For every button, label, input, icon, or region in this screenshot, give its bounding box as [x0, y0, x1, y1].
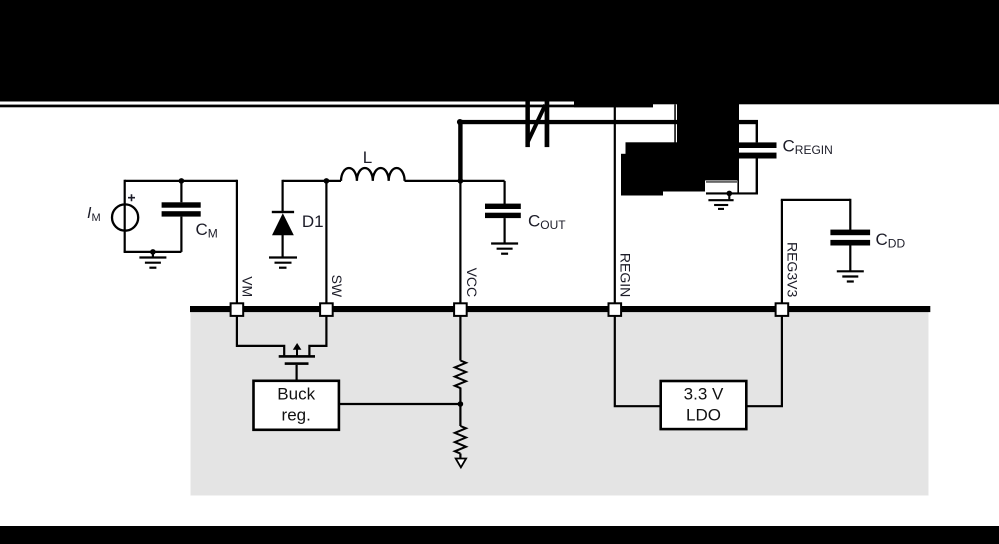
capacitor C_M bottom stub — [180, 217, 182, 252]
pin square SW — [320, 303, 333, 316]
svg-text:CREGIN: CREGIN — [783, 137, 833, 158]
top-right black bar extension — [653, 0, 999, 104]
resistor R1 — [455, 361, 466, 389]
wire: R1 to node — [459, 388, 461, 404]
junction dot C_REGIN ground — [727, 191, 733, 197]
current source I_M circle — [112, 204, 138, 230]
wire: L to VCC node — [405, 180, 461, 182]
svg-text:REGIN: REGIN — [618, 253, 634, 297]
diode (partially hidden) right bar — [545, 102, 550, 148]
black redaction block C (right part) — [661, 154, 705, 192]
wire: VCC pin down to R1 — [459, 315, 461, 360]
junction dot SW node — [324, 178, 330, 184]
svg-text:LDO: LDO — [686, 406, 721, 425]
wire: VCC node to C_OUT branch — [460, 180, 504, 182]
svg-text:CM: CM — [196, 220, 218, 241]
junction dot divider — [458, 401, 464, 407]
diode D1 cathode bar — [272, 211, 294, 213]
bottom black bar — [0, 526, 999, 544]
capacitor C_OUT plates — [485, 204, 521, 209]
junction dot ground node — [150, 249, 156, 255]
black redaction block B — [626, 142, 739, 180]
svg-text:L: L — [363, 148, 372, 167]
thin vertical line left of block A — [674, 104, 676, 142]
wire: C_REGIN vertical lower — [756, 159, 758, 194]
wire: buck to divider — [339, 403, 461, 405]
capacitor C_M plates — [162, 202, 201, 207]
junction dot at thick bus corner — [457, 119, 463, 125]
top black bar — [0, 0, 999, 102]
diode (partially hidden) diagonal — [527, 105, 545, 143]
junction dot VCC node — [458, 178, 464, 184]
MOSFET channel bar — [279, 355, 315, 358]
inductor L — [341, 168, 405, 181]
pin square VCC — [454, 303, 467, 316]
IC body (gray region) — [191, 311, 929, 496]
black redaction block C (left part) — [621, 154, 663, 196]
wire: LDO to REG3V3 pin — [746, 315, 782, 406]
svg-text:IM: IM — [87, 205, 101, 224]
svg-text:CDD: CDD — [876, 230, 906, 251]
black redaction block A — [677, 101, 738, 180]
wire: left loop vertical through current source — [124, 180, 126, 252]
wire: left loop bottom — [124, 251, 182, 253]
capacitor C_DD plates — [830, 230, 870, 236]
capacitor C_M top stub — [180, 180, 182, 203]
svg-text:Buck: Buck — [277, 384, 315, 403]
wire: C_REGIN ground horizontal — [706, 192, 758, 194]
ground under D1 — [269, 258, 297, 268]
resistor R2 — [455, 426, 466, 454]
wire: SW vertical — [325, 180, 327, 303]
horizontal rule under bar — [0, 105, 574, 108]
svg-text:3.3 V: 3.3 V — [684, 385, 724, 404]
IC top edge — [190, 306, 930, 312]
thin line under block B — [706, 181, 737, 182]
ground under C_DD — [837, 271, 864, 281]
black deep notch under bar — [574, 101, 653, 107]
wire: REGIN pin down — [615, 315, 661, 406]
pin square VM — [231, 303, 244, 316]
ground under C_OUT — [491, 244, 518, 254]
wire: C_OUT top stub — [504, 181, 506, 204]
ground under C_REGIN — [708, 193, 733, 209]
ground under C_M loop — [139, 252, 166, 268]
open triangle ground arrow — [456, 459, 466, 468]
wire: D1 top horizontal to SW — [283, 180, 341, 182]
svg-text:VM: VM — [240, 276, 256, 297]
capacitor C_DD bottom stub — [849, 246, 851, 271]
wire: left loop top — [125, 180, 237, 182]
thick bus horizontal — [458, 120, 758, 124]
thin vertical wire at block right edge — [737, 101, 739, 193]
wire: D1 vertical lower — [282, 234, 284, 257]
capacitor C_OUT bottom stub — [504, 218, 506, 243]
MOSFET left wire from VM — [237, 315, 284, 356]
wire: C_REGIN vertical upper — [756, 122, 758, 142]
wire: REG3V3 vertical upper — [781, 200, 783, 303]
MOSFET gate bar — [285, 362, 309, 365]
wire: VCC vertical to pin — [459, 182, 461, 303]
Buck reg box — [254, 381, 339, 430]
svg-text:VCC: VCC — [464, 268, 480, 298]
wire: R2 to arrow — [459, 454, 461, 459]
thick bus vertical (VCC node up) — [458, 120, 462, 182]
MOSFET right wire from SW — [309, 315, 326, 356]
wire: D1 vertical upper — [282, 180, 284, 212]
diode (partially hidden) left bar — [525, 102, 530, 148]
3.3V LDO box — [661, 381, 747, 429]
wire: REGIN vertical — [614, 106, 616, 303]
pin square REGIN — [609, 303, 622, 316]
MOSFET arrow — [296, 349, 298, 357]
plus sign — [128, 194, 135, 201]
svg-text:REG3V3: REG3V3 — [785, 242, 801, 297]
diode D1 triangle — [272, 213, 294, 235]
wire: C_DD top stub — [849, 199, 851, 230]
wire: REG3V3 top horizontal — [781, 199, 851, 201]
wire: VM vertical — [236, 180, 238, 303]
capacitor C_REGIN plates — [738, 142, 777, 148]
svg-text:SW: SW — [329, 275, 345, 298]
svg-text:COUT: COUT — [528, 212, 566, 233]
junction dot top of C_M — [179, 178, 185, 184]
svg-text:reg.: reg. — [282, 406, 311, 425]
MOSFET gate stub — [296, 365, 298, 381]
svg-text:D1: D1 — [302, 212, 324, 231]
wire: node to R2 — [459, 404, 461, 426]
pin square REG3V3 — [776, 303, 789, 316]
